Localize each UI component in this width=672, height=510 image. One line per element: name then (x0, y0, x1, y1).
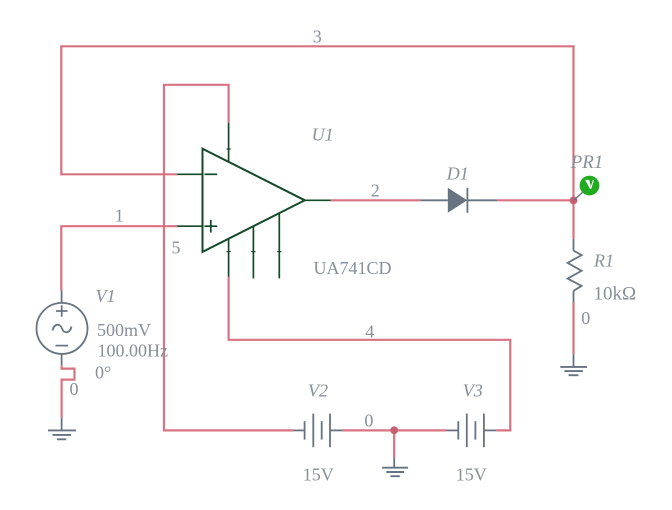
diode D1 cathode bar (466, 188, 468, 213)
wire R1 bottom to ground (572, 303, 574, 355)
svg-text:1: 1 (115, 206, 124, 226)
wire net 1: V1 top to non-inverting input (61, 226, 177, 290)
V1 bottom lead (61, 354, 63, 365)
svg-text:100.00Hz: 100.00Hz (98, 340, 169, 360)
svg-text:500mV: 500mV (97, 320, 151, 340)
ground under R1 bars (560, 367, 587, 375)
op-amp bottom pin 1 tick (227, 251, 231, 253)
svg-text:R1: R1 (593, 251, 614, 271)
op-amp bottom pin 2 (middle) (252, 226, 254, 278)
op-amp inverting input stub pin (177, 173, 203, 175)
svg-text:0: 0 (364, 410, 373, 430)
diode D1 anode lead (420, 199, 447, 201)
wire diode cathode to output node (497, 199, 573, 201)
battery V3 plates (458, 414, 484, 448)
resistor R1 zigzag body (568, 251, 582, 291)
op-amp bottom pin 2 tick (251, 251, 255, 253)
ground bottom center stem (393, 457, 395, 467)
svg-text:3: 3 (313, 26, 322, 46)
wire output node down to R1 top (572, 200, 574, 239)
battery V2 right lead (330, 429, 343, 431)
probe PR1 pointer line (574, 192, 584, 201)
V1 plus sign (56, 305, 68, 316)
wire junction to ground stub (393, 430, 395, 457)
svg-text:V1: V1 (96, 286, 116, 306)
wire V+ rail: op-amp top pin, left, down left rail, to V2 left lead (164, 85, 294, 431)
probe PR1 green circle (580, 176, 600, 196)
svg-text:2: 2 (371, 180, 380, 200)
ground under V1 bars (48, 430, 76, 439)
svg-text:15V: 15V (456, 465, 487, 485)
V1 minus sign (56, 345, 69, 347)
op-amp top pin tick (227, 148, 231, 150)
diode D1 triangle (448, 188, 467, 213)
svg-text:0: 0 (581, 308, 590, 328)
svg-text:4: 4 (365, 321, 374, 341)
svg-text:V2: V2 (308, 381, 328, 401)
svg-text:D1: D1 (446, 163, 469, 183)
wire net 3 feedback: inverting input left, up, across top, down right side (61, 46, 573, 200)
battery V3 left lead (446, 429, 458, 431)
svg-text:V3: V3 (463, 381, 483, 401)
op-amp bottom pin 1 (left) (228, 239, 230, 277)
svg-text:5: 5 (172, 237, 181, 257)
svg-text:0°: 0° (95, 363, 111, 383)
ground under V1 stem (61, 418, 63, 431)
svg-text:0: 0 (70, 379, 79, 399)
V1 top lead (61, 291, 63, 303)
resistor R1 top lead (573, 239, 575, 251)
svg-text:10kΩ: 10kΩ (594, 283, 637, 304)
battery V2 left lead (294, 429, 305, 431)
op-amp minus sign (205, 173, 218, 175)
junction dot bottom rail node 0 (390, 426, 398, 434)
battery V3 right lead (484, 429, 496, 431)
op-amp plus sign (204, 220, 217, 233)
op-amp non-inverting input stub pin (177, 225, 203, 227)
voltage source V1 circle (37, 303, 88, 354)
op-amp top supply pin (228, 123, 230, 162)
op-amp bottom pin 3 (right) (278, 213, 280, 278)
resistor R1 bottom lead (573, 291, 575, 303)
svg-text:UA741CD: UA741CD (314, 258, 392, 278)
probe PR1 V letter (585, 180, 594, 189)
diode D1 cathode lead (467, 199, 497, 201)
wire mid bottom rail: V2 right lead to V3 left lead (343, 429, 447, 431)
op-amp bottom pin 3 tick (277, 251, 281, 253)
ground under R1 stem (573, 354, 575, 367)
wire V1 bottom jog to ground (62, 365, 75, 418)
op-amp output stub pin (305, 199, 331, 201)
svg-text:PR1: PR1 (570, 152, 604, 173)
wire output net 2: op-amp output to diode anode (331, 199, 421, 201)
wire net 4: op-amp bottom pin down, across, down to V3 right lead (229, 277, 511, 431)
ground bottom center bars (382, 468, 408, 477)
op-amp U1 triangle body (203, 149, 305, 252)
svg-text:15V: 15V (303, 465, 334, 485)
V1 sine squiggle (53, 325, 72, 332)
battery V2 plates (305, 414, 330, 448)
junction dot output node (570, 197, 578, 205)
svg-text:U1: U1 (312, 125, 334, 145)
